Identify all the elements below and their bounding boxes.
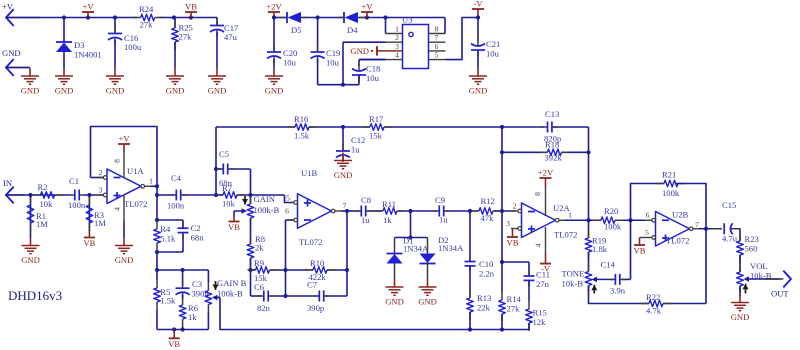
svg-text:VB: VB: [83, 238, 95, 248]
resistor R16 1.5k: [287, 126, 295, 128]
svg-text:GND: GND: [21, 255, 40, 265]
svg-text:100k-B: 100k-B: [217, 289, 243, 299]
capacitor C15 4.7u: [712, 228, 722, 230]
resistor R13 22k: [469, 290, 471, 298]
svg-text:C1: C1: [69, 176, 79, 186]
svg-text:GAIN: GAIN: [254, 194, 276, 204]
svg-text:TL072: TL072: [299, 237, 322, 247]
svg-text:C9: C9: [435, 195, 445, 205]
svg-text:2: 2: [513, 202, 517, 211]
svg-text:+V: +V: [118, 134, 130, 144]
wire stage1 box2: [157, 269, 208, 271]
wire pin5 to -V: [446, 18, 479, 60]
svg-text:1M: 1M: [94, 218, 106, 228]
wire U2A fb vertical: [588, 127, 590, 220]
U2A pin 4 / -V: [545, 227, 547, 254]
wire row B: [347, 210, 359, 212]
svg-text:VOL: VOL: [750, 261, 768, 271]
svg-text:7: 7: [435, 33, 439, 42]
capacitor C13 820p: [542, 126, 548, 128]
svg-text:10u: 10u: [283, 58, 297, 68]
svg-text:C5: C5: [219, 149, 229, 159]
svg-text:3: 3: [99, 186, 103, 195]
svg-text:GND: GND: [469, 86, 488, 96]
capacitor C7 390p: [314, 295, 320, 297]
svg-text:R20: R20: [604, 206, 618, 216]
U2A pin 2: [511, 210, 518, 212]
resistor R7 10k: [215, 194, 223, 196]
U3 pin 4: [359, 59, 403, 61]
capacitor C18 10u: [359, 59, 386, 61]
U1B pin 5: [290, 202, 295, 204]
power VB (R3): [88, 231, 90, 238]
resistor R3 1M: [88, 195, 90, 231]
potentiometer GAIN 100k-B: [250, 195, 252, 204]
resistor R23 560: [739, 229, 741, 241]
svg-text:C15: C15: [722, 200, 736, 210]
svg-text:10k-B: 10k-B: [562, 279, 584, 289]
resistor R19 1.8k: [588, 220, 590, 238]
svg-text:5: 5: [435, 51, 439, 60]
diode D3 1N4001: [63, 18, 65, 43]
svg-text:7: 7: [695, 220, 699, 229]
svg-text:22k: 22k: [477, 302, 491, 312]
ground (U1A): [123, 238, 125, 246]
svg-text:3: 3: [395, 42, 399, 51]
wire U1A output node: [156, 186, 158, 195]
wire stage1 vertical: [156, 195, 158, 221]
svg-text:GND: GND: [385, 297, 404, 307]
svg-text:R22: R22: [646, 292, 660, 302]
resistor R11 1k: [375, 210, 383, 212]
wire GAIN B wiper to bus: [220, 298, 529, 330]
op-amp U2A: [522, 203, 556, 238]
svg-text:68n: 68n: [219, 178, 233, 188]
wire TONE bottom / R22 run: [589, 286, 650, 304]
ground (C12): [342, 153, 344, 161]
resistor R4 5.1k: [156, 221, 158, 229]
svg-text:GND: GND: [334, 170, 353, 180]
svg-text:4: 4: [395, 51, 399, 60]
svg-text:12k: 12k: [533, 317, 547, 327]
wire VOL wiper out: [764, 278, 780, 280]
diode D1 1N34A: [394, 238, 396, 254]
resistor R2 10k: [33, 194, 41, 196]
ground (C16): [114, 68, 116, 76]
op-amp U1B: [298, 194, 332, 229]
resistor R21 100k: [656, 183, 664, 185]
svg-text:3.9n: 3.9n: [610, 286, 626, 296]
svg-text:1u: 1u: [361, 215, 370, 225]
U1B output pin 7: [331, 209, 335, 213]
svg-text:VB: VB: [634, 246, 646, 256]
svg-text:VB: VB: [507, 238, 519, 248]
svg-text:R12: R12: [481, 196, 495, 206]
svg-text:GND: GND: [21, 86, 40, 96]
capacitor C5 68n: [218, 168, 224, 170]
svg-text:U1A: U1A: [127, 166, 145, 176]
svg-text:C13: C13: [545, 109, 559, 119]
svg-text:27k: 27k: [507, 304, 521, 314]
resistor R5 1.5k: [156, 280, 158, 288]
power -V symbol: [472, 8, 484, 10]
svg-text:100k: 100k: [604, 222, 622, 232]
wire R21 right vertical: [676, 184, 706, 304]
svg-text:C4: C4: [171, 173, 182, 183]
U1B pin 6: [286, 219, 295, 221]
svg-text:GND: GND: [418, 297, 437, 307]
svg-text:7: 7: [343, 201, 347, 210]
svg-text:1: 1: [568, 211, 572, 220]
capacitor C2 68n: [157, 219, 183, 221]
svg-text:47u: 47u: [224, 32, 238, 42]
ground (D2): [427, 279, 429, 287]
svg-text:6: 6: [646, 211, 650, 220]
svg-text:10k: 10k: [222, 199, 236, 209]
svg-text:D4: D4: [347, 25, 358, 35]
svg-text:VB: VB: [168, 339, 180, 349]
U2B pin 5: [640, 237, 653, 239]
wire R9R10 top: [251, 269, 256, 271]
U3 pin 6: [429, 50, 446, 52]
svg-text:R24: R24: [139, 4, 154, 14]
svg-text:C7: C7: [307, 280, 318, 290]
svg-text:5: 5: [286, 194, 290, 203]
U3 pin 1: [385, 18, 387, 34]
U1A pin 8 / +V: [123, 152, 125, 179]
resistor R1 1M: [30, 195, 32, 238]
svg-text:C10: C10: [479, 259, 493, 269]
svg-text:+V: +V: [82, 2, 94, 12]
svg-text:1u: 1u: [351, 145, 360, 155]
U3 pin 7: [429, 41, 446, 43]
resistor R10 422k: [305, 269, 313, 271]
svg-text:390p: 390p: [307, 303, 324, 313]
resistor R8 2k: [250, 236, 252, 244]
capacitor C19 10u: [317, 18, 319, 52]
power +V symbol (rail): [361, 11, 373, 13]
svg-text:R14: R14: [507, 294, 522, 304]
svg-text:GND: GND: [350, 46, 369, 56]
capacitor C12 1u: [342, 127, 344, 150]
svg-text:47k: 47k: [481, 213, 495, 223]
resistor R22 4.7k: [641, 303, 649, 305]
wire C14 vertical: [631, 184, 665, 280]
svg-text:6: 6: [285, 207, 289, 216]
svg-text:C11: C11: [536, 270, 550, 280]
svg-text:R17: R17: [369, 114, 384, 124]
svg-text:GND: GND: [731, 312, 750, 322]
svg-text:-V: -V: [473, 0, 483, 9]
svg-text:4: 4: [113, 207, 122, 211]
svg-text:100k-B: 100k-B: [254, 205, 280, 215]
svg-text:8: 8: [113, 159, 122, 163]
wire U3 pin2 net: [343, 41, 386, 43]
svg-text:R16: R16: [294, 114, 309, 124]
svg-text:100n: 100n: [68, 200, 86, 210]
wire GND port: [5, 67, 30, 69]
svg-text:392k: 392k: [545, 153, 563, 163]
power VB (U2B pin5): [639, 238, 641, 246]
svg-text:4.7k: 4.7k: [646, 306, 662, 316]
capacitor C17 47u: [216, 18, 218, 26]
wire U1B fb vertical: [346, 211, 348, 296]
U2B pin 6: [645, 219, 652, 221]
wire main row A: [157, 194, 175, 196]
svg-text:27n: 27n: [536, 279, 550, 289]
resistor R25 27k: [174, 18, 176, 29]
svg-text:4.7u: 4.7u: [722, 234, 738, 244]
svg-text:1N34A: 1N34A: [403, 244, 429, 254]
svg-text:8: 8: [435, 25, 439, 34]
svg-text:1: 1: [149, 177, 153, 186]
svg-text:DHD16v3: DHD16v3: [8, 288, 62, 303]
svg-text:GND: GND: [55, 86, 74, 96]
wire U2A pin2 vertical: [501, 127, 503, 211]
U1A pin 4 / GND: [123, 195, 125, 221]
svg-text:R11: R11: [382, 199, 396, 209]
svg-text:1: 1: [395, 25, 399, 34]
svg-text:R10: R10: [310, 258, 324, 268]
svg-text:1k: 1k: [383, 215, 392, 225]
svg-text:1.8k: 1.8k: [592, 244, 608, 254]
svg-text:1u: 1u: [439, 215, 448, 225]
svg-text:GND: GND: [208, 86, 227, 96]
capacitor C8 1u: [356, 210, 362, 212]
ground (C17): [216, 68, 218, 76]
svg-text:10u: 10u: [326, 58, 340, 68]
svg-text:C20: C20: [283, 48, 297, 58]
svg-text:10k: 10k: [40, 199, 54, 209]
svg-text:GAIN B: GAIN B: [217, 278, 247, 288]
svg-text:6: 6: [435, 42, 439, 51]
op-amp U2B: [656, 212, 690, 247]
svg-text:GND: GND: [265, 86, 284, 96]
wire input: [5, 194, 70, 196]
svg-text:C18: C18: [366, 64, 380, 74]
svg-text:100n: 100n: [167, 201, 185, 211]
ground (C20): [273, 68, 275, 76]
svg-text:D3: D3: [74, 40, 85, 50]
wire filter row: [216, 126, 295, 128]
svg-text:C2: C2: [191, 223, 201, 233]
power +2V symbol: [268, 11, 280, 13]
svg-text:1.5k: 1.5k: [160, 296, 176, 306]
ground (VOL): [739, 286, 741, 296]
svg-text:C19: C19: [326, 48, 340, 58]
svg-text:C6: C6: [254, 282, 265, 292]
U2A output pin 1: [555, 218, 559, 222]
resistor R15 12k: [528, 301, 530, 309]
svg-text:VB: VB: [185, 2, 197, 12]
svg-text:82n: 82n: [257, 303, 271, 313]
svg-text:R23: R23: [745, 234, 759, 244]
diode D2 1N34A: [427, 238, 429, 254]
svg-text:OUT: OUT: [771, 289, 789, 299]
svg-text:VB: VB: [228, 222, 240, 232]
capacitor C3 390n: [182, 270, 184, 286]
capacitor C10 2.2n: [469, 211, 471, 262]
svg-text:8: 8: [533, 192, 542, 196]
svg-text:GND: GND: [2, 48, 21, 58]
resistor R14 27k: [501, 262, 503, 292]
ground (R25): [174, 68, 176, 76]
svg-text:100k: 100k: [662, 188, 680, 198]
power VB symbol (top): [185, 11, 197, 13]
U3 pin 2: [386, 41, 403, 43]
U2B output pin 7: [689, 227, 693, 231]
wire clipping branch: [410, 211, 412, 238]
svg-text:GND: GND: [166, 86, 185, 96]
svg-text:GND: GND: [106, 86, 125, 96]
wire C5 branch: [215, 127, 217, 195]
capacitor C6 82n: [258, 295, 264, 297]
svg-text:IN: IN: [3, 178, 13, 188]
diode D5: [281, 17, 287, 19]
svg-text:10u: 10u: [486, 49, 500, 59]
wire VB node: [501, 211, 503, 262]
svg-text:C14: C14: [601, 260, 616, 270]
ground (R1): [30, 238, 32, 246]
svg-text:2.2n: 2.2n: [479, 269, 495, 279]
svg-text:10u: 10u: [366, 73, 380, 83]
resistor R17 15k: [362, 126, 370, 128]
svg-text:R4: R4: [160, 224, 171, 234]
wire U1B pin6 vertical: [285, 220, 287, 296]
wire R20 run: [589, 219, 602, 221]
capacitor C11 27n: [528, 262, 530, 276]
U3 pin 5: [429, 59, 446, 61]
svg-text:C12: C12: [351, 135, 365, 145]
resistor R20 100k: [593, 219, 601, 221]
svg-text:R9: R9: [254, 258, 264, 268]
svg-text:+2V: +2V: [266, 2, 282, 12]
svg-text:TL072: TL072: [554, 230, 577, 240]
svg-text:TL072: TL072: [124, 199, 147, 209]
wire charge-pump bottom: [318, 84, 359, 86]
wire R9R10 bottom: [251, 295, 262, 297]
capacitor C1 100n: [69, 194, 75, 196]
ground (D1): [394, 279, 396, 287]
power VB (GAIN wiper): [233, 211, 235, 217]
svg-text:2: 2: [395, 33, 399, 42]
U3 pin 8: [444, 18, 446, 34]
svg-text:U1B: U1B: [301, 168, 318, 178]
potentiometer GAIN B 100k-B: [207, 270, 209, 283]
potentiometer VOL 10k-B: [737, 272, 744, 286]
power VB (U2A pin3): [512, 229, 514, 238]
svg-text:GND: GND: [115, 255, 134, 265]
resistor R18 392k: [502, 151, 547, 153]
svg-text:1k: 1k: [188, 312, 197, 322]
svg-text:TL072: TL072: [666, 236, 689, 246]
svg-text:68n: 68n: [191, 233, 205, 243]
U2A pin 3: [511, 228, 518, 230]
svg-text:U2B: U2B: [672, 210, 689, 220]
wire U1A feedback: [91, 127, 158, 187]
U1A pin 3: [97, 194, 104, 196]
op-amp U1A: [107, 169, 141, 204]
capacitor C4 100n: [171, 194, 177, 196]
ground (port): [29, 68, 31, 76]
svg-text:R18: R18: [545, 140, 559, 150]
U1A output pin 1: [141, 184, 145, 188]
svg-text:C8: C8: [361, 195, 371, 205]
svg-text:27k: 27k: [179, 32, 193, 42]
svg-text:1.5k: 1.5k: [294, 131, 310, 141]
ground (D3): [63, 68, 65, 76]
capacitor C16 100u: [114, 18, 116, 34]
resistor R9 15k: [248, 269, 256, 271]
svg-text:3: 3: [506, 219, 510, 228]
capacitor C20 10u: [273, 18, 275, 52]
svg-text:1M: 1M: [36, 219, 48, 229]
port OUT: [783, 271, 791, 288]
svg-text:+2V: +2V: [538, 168, 554, 178]
svg-text:4: 4: [534, 243, 543, 247]
svg-text:C21: C21: [486, 39, 500, 49]
capacitor C9 1u: [434, 210, 440, 212]
wire charge-pump rail: [274, 17, 287, 19]
svg-text:D5: D5: [291, 25, 302, 35]
svg-text:1N34A: 1N34A: [438, 243, 464, 253]
resistor R24 27k: [133, 17, 141, 19]
capacitor C14 3.9n: [610, 278, 613, 280]
wire +V rail left: [6, 17, 137, 19]
svg-text:100u: 100u: [124, 42, 142, 52]
U3 pin 3 / GND bar port: [377, 50, 403, 52]
svg-text:R21: R21: [662, 170, 676, 180]
resistor R12 47k: [471, 210, 479, 212]
U1A pin 2: [91, 177, 104, 179]
svg-text:+V: +V: [361, 2, 373, 12]
diode D4: [338, 17, 344, 19]
ground (C21): [477, 68, 479, 76]
capacitor C21 10u: [477, 18, 479, 42]
svg-text:TONE: TONE: [562, 269, 585, 279]
svg-text:27k: 27k: [140, 20, 154, 30]
svg-text:2: 2: [99, 168, 103, 177]
power VB (box2): [173, 330, 175, 339]
svg-text:15k: 15k: [369, 131, 383, 141]
U2A pin 8 / +2V: [545, 187, 547, 216]
svg-text:5: 5: [645, 228, 649, 237]
svg-text:560: 560: [745, 244, 758, 254]
svg-text:2k: 2k: [255, 243, 264, 253]
svg-text:U3: U3: [402, 15, 413, 25]
resistor R6 1k: [182, 297, 184, 305]
potentiometer TONE 10k-B: [585, 272, 592, 286]
svg-text:R2: R2: [38, 182, 48, 192]
power +V symbol: [82, 11, 94, 13]
svg-text:5.1k: 5.1k: [160, 234, 176, 244]
ic U3: [403, 25, 429, 69]
svg-text:1N4001: 1N4001: [74, 50, 102, 60]
